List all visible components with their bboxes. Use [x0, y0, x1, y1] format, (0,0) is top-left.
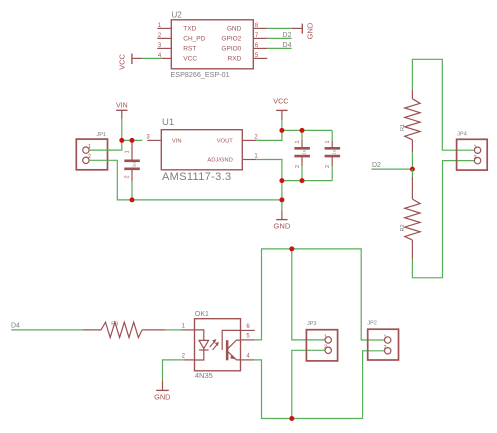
wire VCC to U2 pin4	[142, 57, 162, 59]
capacitor C1 top lead	[131, 140, 133, 160]
OK1 internal phototransistor base wire	[222, 330, 240, 350]
ic U1 box	[161, 130, 242, 170]
pin U2.2 CH_PD stub	[157, 37, 171, 39]
capacitor C3 bottom lead	[301, 156, 303, 166]
wire JP1 pin2 down to bottom rail	[89, 160, 282, 200]
svg-text:2: 2	[182, 354, 186, 360]
svg-text:ADJ/GND: ADJ/GND	[207, 158, 232, 164]
wire C4 top corner	[331, 130, 333, 141]
svg-text:OK1: OK1	[195, 311, 209, 318]
svg-text:U1: U1	[162, 117, 174, 128]
OK1 emitter arrow head	[230, 354, 236, 359]
svg-text:D4: D4	[283, 42, 292, 49]
junction dot C3 top	[300, 128, 305, 133]
pin U2.5 RXD stub	[253, 57, 267, 59]
svg-text:5: 5	[246, 334, 250, 340]
svg-text:1: 1	[125, 150, 131, 153]
svg-text:1u: 1u	[132, 162, 137, 168]
wire U1 pin1 ADJ down to GND node	[256, 160, 282, 211]
svg-text:TXD: TXD	[183, 26, 196, 33]
pin JP3.2 circle	[325, 347, 331, 353]
svg-text:4: 4	[246, 354, 250, 360]
svg-text:1: 1	[473, 145, 476, 151]
pin JP1.2 circle	[83, 157, 89, 163]
wire OK1 pin5 up to top rail	[255, 249, 385, 340]
pin OK1.1 anode stub	[181, 329, 195, 331]
wire JP1 pin1 to VIN junction	[89, 140, 122, 150]
ground GND symbol right of U2	[292, 22, 315, 39]
wire VIN down to junction	[121, 119, 123, 141]
svg-text:VCC: VCC	[273, 96, 288, 105]
wire C3 top corner	[301, 130, 303, 140]
pin JP3.1 circle	[325, 337, 331, 343]
svg-text:2: 2	[473, 155, 476, 161]
svg-text:GND: GND	[154, 393, 170, 402]
connector JP3 box	[306, 330, 337, 361]
svg-text:JP4: JP4	[457, 131, 466, 137]
supply VIN symbol	[116, 103, 128, 119]
svg-text:1: 1	[295, 140, 301, 143]
svg-text:GPIO0: GPIO0	[221, 46, 241, 53]
svg-text:1: 1	[324, 334, 327, 340]
wire net D2 stub	[372, 168, 413, 170]
pin JP4.2 circle	[474, 157, 480, 163]
svg-text:RST: RST	[183, 46, 196, 53]
wire net D4 on U2 pin6	[267, 47, 291, 49]
junction dot GND rail	[279, 197, 284, 202]
svg-text:6: 6	[246, 324, 250, 330]
svg-text:2: 2	[324, 345, 327, 351]
wire net D4 to R3	[11, 329, 83, 331]
svg-text:GND: GND	[306, 22, 315, 39]
svg-text:1: 1	[383, 334, 386, 340]
pin U2.6 GPIO0 stub	[253, 47, 267, 49]
junction dot D2 divider	[410, 167, 415, 172]
wire top loop R1 to JP4 pin1	[412, 59, 474, 150]
pin OK1.2 cathode stub	[184, 359, 195, 361]
svg-text:2: 2	[295, 165, 301, 168]
OK1 light arrows	[210, 342, 217, 350]
capacitor C1 plates	[124, 161, 140, 169]
capacitor C3 top lead	[301, 140, 303, 148]
junction dot C3 bottom	[300, 178, 305, 183]
svg-text:VCC: VCC	[117, 54, 126, 70]
supply VCC symbol left of U2	[117, 54, 142, 70]
svg-text:D2: D2	[372, 162, 381, 169]
svg-text:ESP8266_ESP-01: ESP8266_ESP-01	[171, 70, 230, 79]
wire R3 to OK1 pin1	[165, 329, 181, 331]
connector JP1 box	[76, 139, 107, 170]
svg-text:VIN: VIN	[116, 103, 128, 110]
wire OK1 pin4 down to bottom rail	[255, 351, 385, 419]
pin JP2.1 circle	[385, 337, 391, 343]
svg-text:VIN: VIN	[172, 139, 182, 145]
OK1 light arrow heads	[212, 339, 219, 346]
pin JP2.2 circle	[385, 348, 391, 354]
svg-text:1u: 1u	[302, 149, 307, 155]
junction dot VIN/JP1	[119, 138, 124, 143]
svg-text:GND: GND	[227, 26, 242, 33]
svg-text:2: 2	[125, 175, 131, 178]
junction dot C1 bottom	[130, 197, 135, 202]
wire OK1 pin2 to GND	[163, 360, 184, 380]
wire C4 to bottom rail corner	[331, 166, 333, 181]
pin U2.8 GND stub	[253, 27, 267, 29]
OK1 phototransistor emitter	[228, 352, 241, 360]
resistor R1	[405, 90, 420, 152]
wire caps bottom rail	[282, 180, 332, 182]
svg-text:JP3: JP3	[307, 321, 316, 327]
OK1 phototransistor collector	[228, 340, 241, 349]
svg-text:1: 1	[88, 144, 91, 150]
capacitor C1 bottom lead	[131, 169, 133, 181]
junction dot ADJ rail left	[279, 178, 284, 183]
pin JP1.1 circle	[83, 147, 89, 153]
resistor R3	[83, 322, 165, 337]
pin U1.3 VIN stub	[147, 139, 161, 141]
wire VCC node to caps C3 C4	[282, 129, 332, 131]
OK1 internal LED	[195, 330, 209, 360]
capacitor C4 bottom lead	[331, 156, 333, 166]
ic U2 box	[171, 20, 253, 69]
svg-text:3: 3	[146, 134, 150, 140]
svg-text:D2: D2	[283, 32, 292, 39]
pin OK1.6 base stub	[241, 329, 255, 331]
pin U2.4 VCC stub	[160, 57, 171, 59]
wire VCC down to VOUT node	[281, 121, 283, 131]
junction dot C1 top	[130, 138, 135, 143]
svg-text:U2: U2	[172, 11, 183, 20]
svg-text:R2: R2	[400, 224, 406, 231]
wire bottom loop R2 to JP4 pin2	[412, 161, 474, 278]
wire junction to R2	[411, 169, 413, 177]
wire C1 to bottom rail	[131, 181, 133, 200]
svg-text:2: 2	[325, 165, 331, 168]
connector JP2 box	[368, 329, 399, 360]
wire U2 pin8 to GND	[267, 27, 292, 29]
capacitor C4 plates	[325, 148, 341, 156]
svg-text:GPIO2: GPIO2	[221, 36, 241, 43]
svg-text:1: 1	[182, 324, 186, 330]
wire U1 pin2 VOUT up to VCC node	[256, 130, 282, 140]
svg-text:VCC: VCC	[183, 56, 197, 63]
pin U2.7 GPIO2 stub	[253, 37, 267, 39]
ground GND symbol below ADJ node	[273, 210, 290, 230]
resistor R2	[405, 177, 420, 259]
svg-text:4N35: 4N35	[195, 371, 213, 380]
pin U1.1 ADJ/GND stub	[242, 159, 256, 161]
svg-text:2: 2	[383, 345, 386, 351]
junction dot VCC node	[279, 128, 284, 133]
wire top rail tap to JP3 pin1	[292, 249, 325, 340]
svg-text:VOUT: VOUT	[217, 139, 234, 145]
ic OK1 box	[195, 319, 241, 371]
pin OK1.4 emitter stub	[241, 359, 255, 361]
ground GND symbol below OK1	[154, 380, 170, 401]
pin U2.1 TXD stub	[157, 27, 171, 29]
svg-text:D4: D4	[11, 322, 20, 329]
junction dot top rail	[289, 246, 294, 251]
pin U2.3 RST stub	[157, 47, 171, 49]
svg-text:GND: GND	[273, 222, 290, 231]
svg-text:2: 2	[254, 134, 258, 140]
svg-text:JP2: JP2	[367, 321, 376, 327]
supply VCC symbol above VOUT	[273, 96, 288, 120]
svg-text:JP1: JP1	[97, 132, 106, 138]
pin U1.2 VOUT stub	[242, 139, 256, 141]
capacitor C3 plates	[294, 148, 310, 156]
wire net D2 on U2 pin7	[267, 37, 291, 39]
svg-text:1u: 1u	[332, 149, 337, 155]
svg-text:2: 2	[88, 154, 91, 160]
svg-text:RXD: RXD	[228, 56, 242, 63]
pin JP4.1 circle	[474, 147, 480, 153]
pin OK1.5 collector stub	[241, 339, 255, 341]
svg-text:1: 1	[325, 140, 331, 143]
OK1 phototransistor base bar	[226, 340, 229, 360]
wire C3 to bottom rail	[301, 166, 303, 181]
svg-text:AMS1117-3.3: AMS1117-3.3	[162, 171, 231, 183]
svg-text:CH_PD: CH_PD	[183, 36, 205, 43]
svg-text:1: 1	[254, 154, 258, 160]
junction dot bottom rail	[289, 416, 294, 421]
wire VIN junction to U1 pin3	[122, 139, 143, 141]
wire R1 to junction	[411, 152, 413, 169]
wire JP3 pin2 down to bottom rail	[292, 350, 325, 418]
connector JP4 box	[457, 139, 488, 170]
capacitor C4 top lead	[331, 141, 333, 148]
